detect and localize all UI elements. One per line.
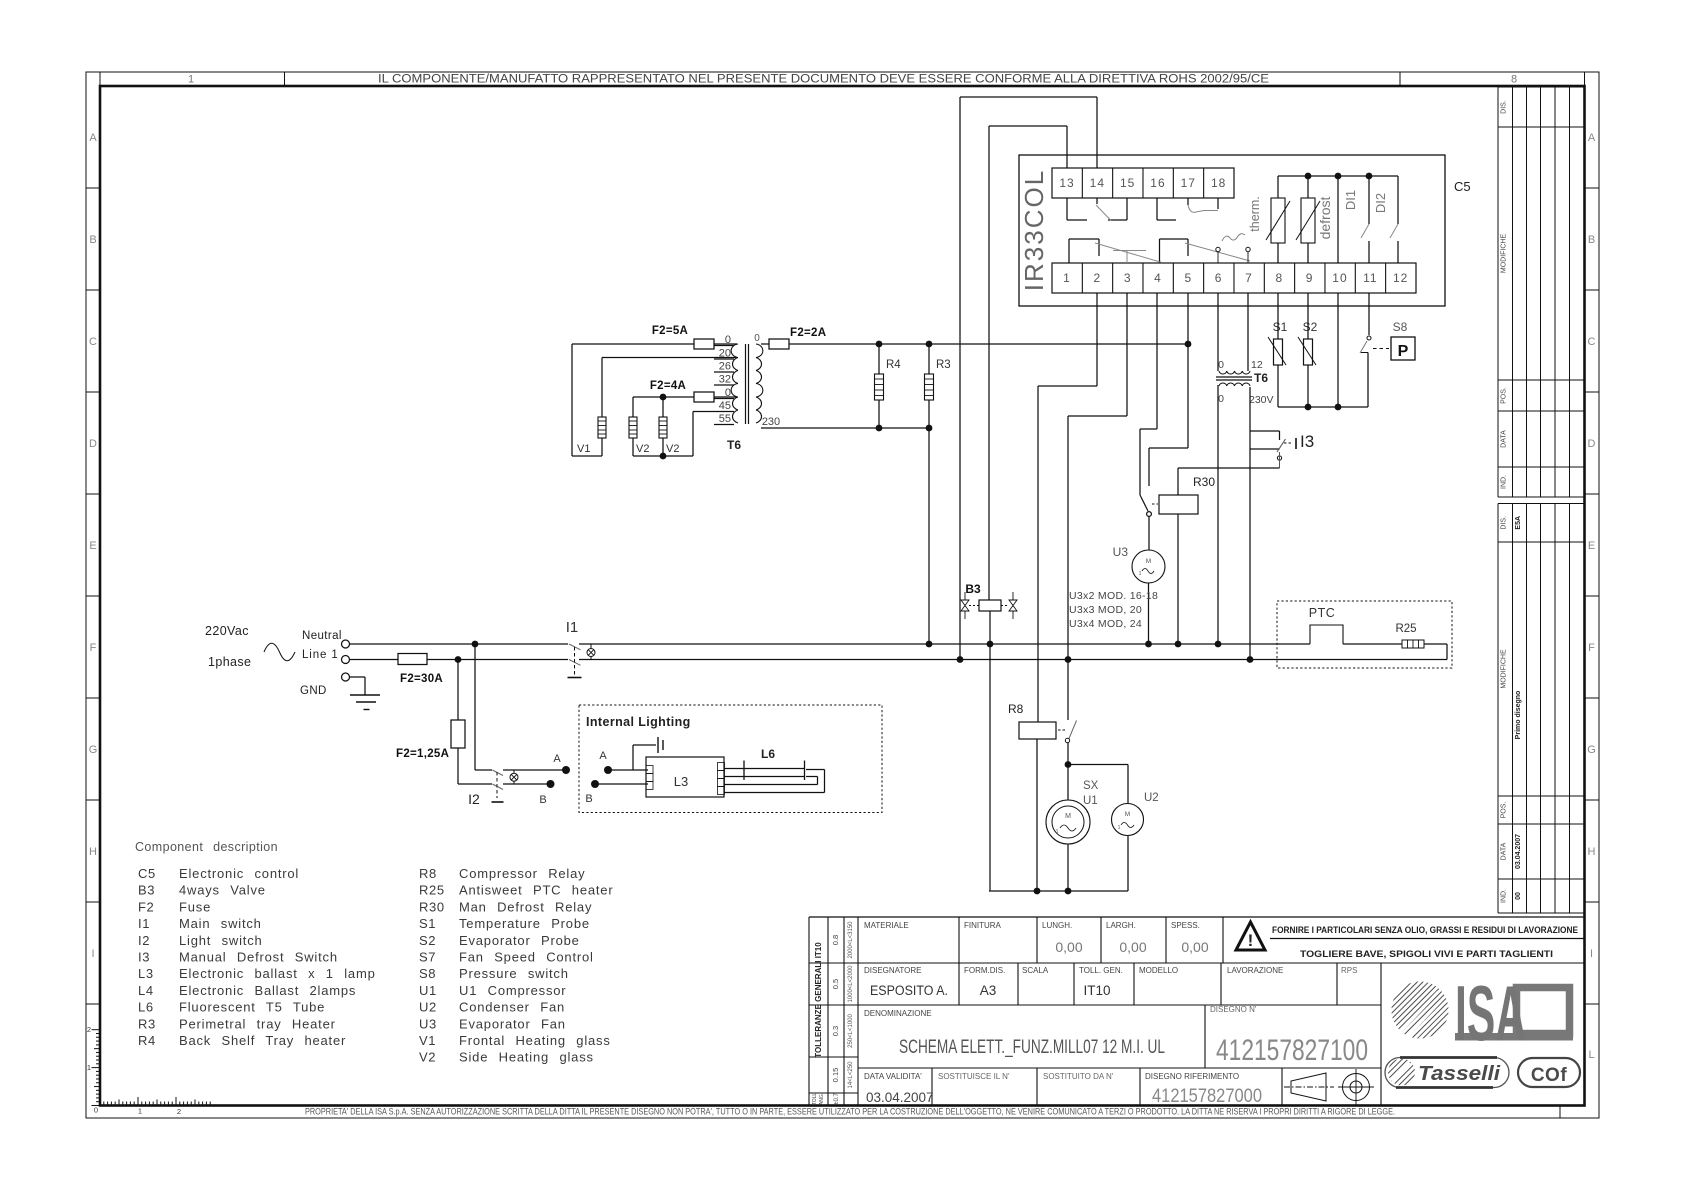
svg-text:A: A bbox=[553, 753, 561, 765]
svg-text:defrost: defrost bbox=[1317, 196, 1333, 239]
svg-text:03.04.2007: 03.04.2007 bbox=[866, 1090, 934, 1105]
svg-text:U1: U1 bbox=[419, 983, 437, 998]
svg-text:H: H bbox=[1588, 846, 1596, 858]
svg-text:Internal Lighting: Internal Lighting bbox=[586, 715, 691, 729]
svg-text:Frontal Heating glass: Frontal Heating glass bbox=[459, 1033, 611, 1048]
svg-text:S2: S2 bbox=[1303, 320, 1318, 334]
svg-text:220Vac: 220Vac bbox=[205, 624, 249, 638]
svg-text:L6: L6 bbox=[761, 747, 775, 761]
svg-text:L3: L3 bbox=[674, 774, 688, 789]
svg-text:G: G bbox=[1587, 744, 1596, 756]
svg-text:E: E bbox=[1588, 540, 1595, 552]
svg-text:I3: I3 bbox=[138, 950, 150, 965]
svg-text:TOGLIERE BAVE, SPIGOLI VIVI E: TOGLIERE BAVE, SPIGOLI VIVI E PARTI TAGL… bbox=[1300, 949, 1553, 960]
svg-text:Pressure switch: Pressure switch bbox=[459, 966, 569, 981]
svg-text:32: 32 bbox=[719, 374, 731, 386]
svg-text:S7: S7 bbox=[419, 950, 436, 965]
svg-text:MATERIALE: MATERIALE bbox=[864, 921, 909, 930]
svg-text:MODIFICHE: MODIFICHE bbox=[1501, 234, 1508, 274]
svg-text:3: 3 bbox=[1124, 271, 1132, 285]
svg-text:D: D bbox=[1588, 438, 1596, 450]
svg-text:B: B bbox=[1588, 234, 1595, 246]
svg-text:2: 2 bbox=[177, 1107, 181, 1116]
svg-text:F2: F2 bbox=[138, 899, 154, 914]
svg-text:14: 14 bbox=[1090, 176, 1105, 190]
svg-text:R25: R25 bbox=[1395, 623, 1416, 635]
svg-text:17: 17 bbox=[1181, 176, 1196, 190]
svg-text:T6: T6 bbox=[727, 438, 741, 452]
svg-text:MODELLO: MODELLO bbox=[1139, 966, 1178, 975]
svg-text:G: G bbox=[89, 744, 98, 756]
svg-text:H: H bbox=[89, 846, 97, 858]
svg-text:LAVORAZIONE: LAVORAZIONE bbox=[1227, 966, 1283, 975]
svg-text:F2=30A: F2=30A bbox=[400, 673, 443, 685]
svg-text:1: 1 bbox=[87, 1063, 91, 1072]
svg-text:SX: SX bbox=[1083, 780, 1099, 792]
svg-text:U1 Compressor: U1 Compressor bbox=[459, 983, 566, 998]
svg-text:U3x4 MOD, 24: U3x4 MOD, 24 bbox=[1069, 618, 1142, 630]
svg-text:2000<L<3150: 2000<L<3150 bbox=[848, 921, 854, 959]
svg-text:1: 1 bbox=[188, 74, 194, 86]
svg-text:LARGH.: LARGH. bbox=[1106, 921, 1136, 930]
svg-text:0.3: 0.3 bbox=[831, 1026, 840, 1036]
svg-text:5: 5 bbox=[1184, 271, 1192, 285]
svg-text:COf: COf bbox=[1531, 1065, 1568, 1086]
svg-text:R30: R30 bbox=[1193, 475, 1215, 489]
svg-text:±0.7: ±0.7 bbox=[834, 1093, 840, 1105]
svg-text:P: P bbox=[1398, 343, 1409, 360]
svg-text:I3: I3 bbox=[1300, 432, 1314, 451]
svg-text:16: 16 bbox=[1150, 176, 1165, 190]
svg-text:Man Defrost Relay: Man Defrost Relay bbox=[459, 899, 592, 914]
svg-text:13: 13 bbox=[1059, 176, 1074, 190]
svg-text:DISEGNO N': DISEGNO N' bbox=[1210, 1005, 1257, 1014]
svg-text:DISEGNATORE: DISEGNATORE bbox=[864, 966, 922, 975]
svg-text:Fuse: Fuse bbox=[179, 899, 211, 914]
svg-text:1: 1 bbox=[1118, 825, 1121, 831]
svg-text:F2=2A: F2=2A bbox=[790, 327, 826, 339]
svg-text:2: 2 bbox=[87, 1025, 91, 1034]
svg-text:L: L bbox=[1588, 1049, 1594, 1061]
svg-text:PROPRIETA' DELLA ISA S.p.A. SE: PROPRIETA' DELLA ISA S.p.A. SENZA AUTORI… bbox=[305, 1107, 1395, 1118]
svg-text:1: 1 bbox=[138, 1107, 142, 1116]
svg-text:03.04.2007: 03.04.2007 bbox=[1515, 834, 1522, 869]
svg-text:U2: U2 bbox=[419, 1000, 437, 1015]
svg-text:R25: R25 bbox=[419, 883, 445, 898]
svg-text:S1: S1 bbox=[1273, 320, 1288, 334]
svg-text:IL COMPONENTE/MANUFATTO RAPPRE: IL COMPONENTE/MANUFATTO RAPPRESENTATO NE… bbox=[378, 74, 1269, 86]
svg-text:L4: L4 bbox=[138, 983, 154, 998]
svg-text:!: ! bbox=[1248, 931, 1254, 950]
svg-text:2: 2 bbox=[1093, 271, 1101, 285]
svg-text:C5: C5 bbox=[138, 866, 156, 881]
svg-text:F: F bbox=[90, 642, 97, 654]
svg-text:L6: L6 bbox=[138, 1000, 154, 1015]
svg-text:TOLLERANZE GENERALI IT10: TOLLERANZE GENERALI IT10 bbox=[814, 942, 823, 1058]
svg-text:IND.: IND. bbox=[1501, 475, 1508, 489]
svg-text:IR33COL: IR33COL bbox=[1019, 169, 1049, 291]
svg-text:250<L<1000: 250<L<1000 bbox=[848, 1013, 854, 1047]
svg-text:SCALA: SCALA bbox=[1022, 966, 1049, 975]
svg-text:M: M bbox=[1125, 811, 1130, 818]
svg-text:45: 45 bbox=[719, 400, 731, 412]
svg-text:F2=1,25A: F2=1,25A bbox=[396, 748, 449, 760]
svg-text:Light switch: Light switch bbox=[179, 933, 263, 948]
svg-text:F: F bbox=[1588, 642, 1595, 654]
svg-text:E5A: E5A bbox=[1515, 516, 1522, 530]
svg-text:DISEGNO RIFERIMENTO: DISEGNO RIFERIMENTO bbox=[1145, 1072, 1239, 1081]
svg-text:I1: I1 bbox=[138, 916, 150, 931]
svg-text:Component description: Component description bbox=[135, 840, 278, 854]
svg-text:I2: I2 bbox=[138, 933, 150, 948]
svg-text:S2: S2 bbox=[419, 933, 436, 948]
svg-text:Main switch: Main switch bbox=[179, 916, 262, 931]
svg-text:Electronic Ballast 2lamps: Electronic Ballast 2lamps bbox=[179, 983, 356, 998]
svg-text:0: 0 bbox=[1218, 393, 1224, 405]
svg-text:0: 0 bbox=[94, 1106, 98, 1115]
svg-text:IND.: IND. bbox=[1501, 889, 1508, 903]
svg-text:12: 12 bbox=[1251, 359, 1263, 371]
svg-text:A: A bbox=[89, 132, 97, 144]
svg-text:M: M bbox=[1065, 813, 1071, 820]
svg-text:230: 230 bbox=[762, 416, 780, 428]
svg-text:412157827100: 412157827100 bbox=[1216, 1034, 1368, 1067]
svg-text:4: 4 bbox=[1154, 271, 1162, 285]
svg-text:V2: V2 bbox=[636, 443, 649, 455]
svg-text:DATA: DATA bbox=[1501, 430, 1508, 448]
svg-text:U3x3 MOD, 20: U3x3 MOD, 20 bbox=[1069, 604, 1142, 616]
svg-text:U1: U1 bbox=[1083, 795, 1098, 807]
svg-text:Evaporator Probe: Evaporator Probe bbox=[459, 933, 580, 948]
svg-text:F2=4A: F2=4A bbox=[650, 380, 686, 392]
svg-text:I1: I1 bbox=[566, 619, 579, 636]
svg-text:8: 8 bbox=[1511, 74, 1517, 86]
svg-text:1: 1 bbox=[1063, 271, 1071, 285]
svg-text:TOLL: TOLL bbox=[812, 1093, 818, 1106]
svg-text:V1: V1 bbox=[419, 1033, 436, 1048]
svg-text:S8: S8 bbox=[419, 966, 436, 981]
svg-text:Temperature Probe: Temperature Probe bbox=[459, 916, 590, 931]
svg-text:DI2: DI2 bbox=[1373, 193, 1388, 213]
svg-text:V2: V2 bbox=[419, 1050, 436, 1065]
svg-text:Neutral: Neutral bbox=[302, 630, 342, 642]
svg-text:A: A bbox=[599, 750, 607, 762]
svg-text:FORNIRE I PARTICOLARI SENZA OL: FORNIRE I PARTICOLARI SENZA OLIO, GRASSI… bbox=[1272, 925, 1578, 936]
svg-text:DATA: DATA bbox=[1501, 842, 1508, 860]
svg-text:LUNGH.: LUNGH. bbox=[1042, 921, 1072, 930]
svg-text:DIS.: DIS. bbox=[1501, 516, 1508, 530]
svg-text:SCHEMA ELETT._FUNZ.MILL07 12 M: SCHEMA ELETT._FUNZ.MILL07 12 M.I. UL bbox=[899, 1037, 1165, 1058]
svg-text:SOSTITUISCE IL N': SOSTITUISCE IL N' bbox=[938, 1072, 1010, 1081]
svg-text:U2: U2 bbox=[1144, 792, 1159, 804]
svg-text:E: E bbox=[89, 540, 96, 552]
svg-text:R4: R4 bbox=[886, 359, 901, 371]
svg-text:55: 55 bbox=[719, 413, 731, 425]
svg-text:A3: A3 bbox=[980, 983, 997, 998]
svg-text:4ways Valve: 4ways Valve bbox=[179, 883, 266, 898]
svg-text:230V: 230V bbox=[1249, 394, 1274, 406]
svg-text:11: 11 bbox=[1363, 271, 1377, 285]
svg-text:V1: V1 bbox=[577, 443, 590, 455]
svg-text:0.5: 0.5 bbox=[831, 979, 840, 989]
svg-text:DENOMINAZIONE: DENOMINAZIONE bbox=[864, 1009, 932, 1018]
svg-text:T6: T6 bbox=[1254, 371, 1268, 385]
svg-text:S8: S8 bbox=[1393, 320, 1408, 334]
svg-text:0,00: 0,00 bbox=[1181, 939, 1208, 955]
svg-text:10: 10 bbox=[1332, 271, 1347, 285]
svg-text:C: C bbox=[89, 336, 97, 348]
svg-text:S1: S1 bbox=[419, 916, 436, 931]
svg-text:ISA: ISA bbox=[1455, 969, 1526, 1057]
svg-text:26: 26 bbox=[719, 361, 731, 373]
svg-text:Antisweet PTC heater: Antisweet PTC heater bbox=[459, 883, 613, 898]
svg-text:412157827000: 412157827000 bbox=[1152, 1086, 1262, 1107]
svg-text:ESPOSITO A.: ESPOSITO A. bbox=[870, 983, 948, 998]
svg-text:Side Heating glass: Side Heating glass bbox=[459, 1050, 594, 1065]
svg-text:POS.: POS. bbox=[1501, 802, 1508, 819]
svg-text:I: I bbox=[91, 948, 94, 960]
svg-text:Primo disegno: Primo disegno bbox=[1515, 691, 1522, 740]
svg-text:PTC: PTC bbox=[1309, 606, 1336, 620]
svg-text:1phase: 1phase bbox=[208, 655, 251, 669]
svg-text:14<L<250: 14<L<250 bbox=[848, 1061, 854, 1089]
svg-text:DI1: DI1 bbox=[1343, 190, 1358, 210]
svg-text:15: 15 bbox=[1120, 176, 1135, 190]
svg-text:6: 6 bbox=[1215, 271, 1223, 285]
svg-text:V2: V2 bbox=[666, 443, 679, 455]
svg-text:0,00: 0,00 bbox=[1119, 939, 1146, 955]
svg-text:TOLL. GEN.: TOLL. GEN. bbox=[1079, 966, 1123, 975]
svg-text:U3x2 MOD. 16-18: U3x2 MOD. 16-18 bbox=[1069, 590, 1158, 602]
svg-text:L3: L3 bbox=[138, 966, 154, 981]
svg-text:1: 1 bbox=[1056, 829, 1059, 835]
svg-text:C5: C5 bbox=[1454, 179, 1471, 194]
svg-text:R4: R4 bbox=[138, 1033, 156, 1048]
svg-text:Electronic control: Electronic control bbox=[179, 866, 299, 881]
svg-text:0: 0 bbox=[1218, 359, 1224, 371]
svg-text:A: A bbox=[1588, 132, 1596, 144]
svg-text:D: D bbox=[89, 438, 97, 450]
svg-text:I: I bbox=[1590, 948, 1593, 960]
svg-text:B: B bbox=[585, 793, 592, 805]
svg-text:FINITURA: FINITURA bbox=[964, 921, 1002, 930]
svg-text:FORM.DIS.: FORM.DIS. bbox=[964, 966, 1005, 975]
svg-text:R8: R8 bbox=[1008, 702, 1024, 716]
svg-text:Back Shelf Tray heater: Back Shelf Tray heater bbox=[179, 1033, 346, 1048]
svg-text:ANG.: ANG. bbox=[819, 1093, 825, 1105]
svg-text:DIS.: DIS. bbox=[1501, 100, 1508, 114]
svg-text:7: 7 bbox=[1245, 271, 1253, 285]
svg-text:0.8: 0.8 bbox=[831, 935, 840, 945]
svg-text:0,00: 0,00 bbox=[1055, 939, 1082, 955]
svg-text:Fan Speed Control: Fan Speed Control bbox=[459, 950, 594, 965]
svg-text:RPS: RPS bbox=[1341, 966, 1357, 975]
svg-text:B: B bbox=[539, 794, 546, 806]
svg-text:M: M bbox=[1146, 558, 1151, 565]
svg-text:Electronic ballast x 1 lamp: Electronic ballast x 1 lamp bbox=[179, 966, 376, 981]
svg-text:F2=5A: F2=5A bbox=[652, 325, 688, 337]
svg-text:IT10: IT10 bbox=[1083, 983, 1110, 998]
svg-text:9: 9 bbox=[1306, 271, 1314, 285]
svg-text:R30: R30 bbox=[419, 899, 445, 914]
svg-text:R3: R3 bbox=[936, 359, 951, 371]
svg-text:Compressor Relay: Compressor Relay bbox=[459, 866, 585, 881]
svg-text:8: 8 bbox=[1275, 271, 1283, 285]
svg-text:Fluorescent T5 Tube: Fluorescent T5 Tube bbox=[179, 1000, 325, 1015]
svg-text:SOSTITUITO DA N': SOSTITUITO DA N' bbox=[1043, 1072, 1114, 1081]
svg-text:00: 00 bbox=[1515, 892, 1522, 900]
svg-text:U3: U3 bbox=[1113, 545, 1129, 559]
svg-text:GND: GND bbox=[300, 685, 327, 697]
svg-text:R3: R3 bbox=[138, 1016, 156, 1031]
svg-text:Tasselli: Tasselli bbox=[1418, 1063, 1500, 1085]
svg-text:Manual Defrost Switch: Manual Defrost Switch bbox=[179, 950, 338, 965]
svg-text:U3: U3 bbox=[419, 1016, 437, 1031]
svg-text:Line 1: Line 1 bbox=[302, 649, 339, 661]
svg-text:therm.: therm. bbox=[1248, 196, 1262, 231]
svg-text:MODIFICHE: MODIFICHE bbox=[1501, 649, 1508, 689]
svg-text:POS.: POS. bbox=[1501, 387, 1508, 404]
svg-text:0.15: 0.15 bbox=[831, 1068, 840, 1083]
svg-text:1: 1 bbox=[1139, 571, 1142, 577]
svg-text:18: 18 bbox=[1211, 176, 1226, 190]
svg-text:DATA VALIDITA': DATA VALIDITA' bbox=[864, 1072, 922, 1081]
svg-text:Perimetral tray Heater: Perimetral tray Heater bbox=[179, 1016, 336, 1031]
svg-text:12: 12 bbox=[1393, 271, 1408, 285]
svg-text:SPESS.: SPESS. bbox=[1171, 921, 1200, 930]
svg-text:C: C bbox=[1588, 336, 1596, 348]
svg-text:Evaporator Fan: Evaporator Fan bbox=[459, 1016, 566, 1031]
svg-text:B: B bbox=[89, 234, 96, 246]
svg-text:R8: R8 bbox=[419, 866, 437, 881]
svg-text:1000<L<2000: 1000<L<2000 bbox=[848, 965, 854, 1003]
svg-text:I2: I2 bbox=[468, 791, 480, 807]
svg-text:B3: B3 bbox=[138, 883, 155, 898]
svg-text:0: 0 bbox=[754, 333, 760, 344]
svg-text:Condenser Fan: Condenser Fan bbox=[459, 1000, 565, 1015]
svg-text:B3: B3 bbox=[965, 582, 981, 596]
